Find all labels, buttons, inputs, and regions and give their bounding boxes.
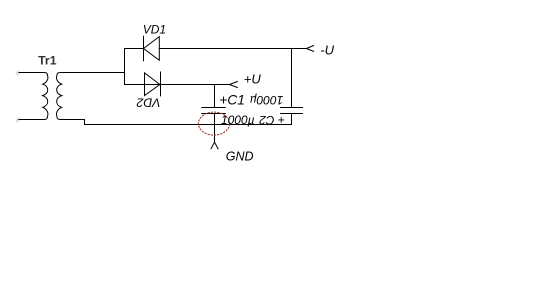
transformer Tr1 secondary winding xyxy=(57,73,125,120)
svg-text:GND: GND xyxy=(226,149,254,163)
faint terminal arrow, primary top lead xyxy=(16,71,20,76)
svg-text:VD2: VD2 xyxy=(136,95,160,109)
wire VD2 rail to +U xyxy=(125,84,230,86)
wire VD1 anode rail to -U xyxy=(125,48,307,50)
wire bottom rail with jog xyxy=(85,120,292,125)
capacitor C2 xyxy=(281,108,303,125)
ground GND arrow xyxy=(211,142,218,149)
faint terminal arrow, primary bottom lead xyxy=(16,118,20,123)
capacitor C1 xyxy=(202,108,226,143)
terminal arrow -U xyxy=(306,45,314,51)
wire -U branch down to C2 xyxy=(291,49,293,108)
diode VD2 xyxy=(145,72,161,96)
svg-text:Tr1: Tr1 xyxy=(38,54,57,68)
svg-text:1000µ: 1000µ xyxy=(221,113,255,127)
svg-text:1000µ: 1000µ xyxy=(250,93,284,107)
svg-text:-U: -U xyxy=(320,42,334,57)
terminal arrow +U xyxy=(229,81,237,87)
wire junction vertical at node between VD1 and VD2 xyxy=(124,49,126,85)
svg-text:+U: +U xyxy=(244,71,262,86)
svg-text:+ C2: + C2 xyxy=(259,113,285,127)
annotation ellipse (red highlight) xyxy=(198,112,229,135)
svg-text:+C1: +C1 xyxy=(219,93,245,108)
wire +U branch down to C1 xyxy=(214,85,216,108)
svg-text:VD1: VD1 xyxy=(143,22,166,36)
diode VD1 xyxy=(144,36,160,60)
transformer Tr1 primary winding xyxy=(19,73,48,120)
